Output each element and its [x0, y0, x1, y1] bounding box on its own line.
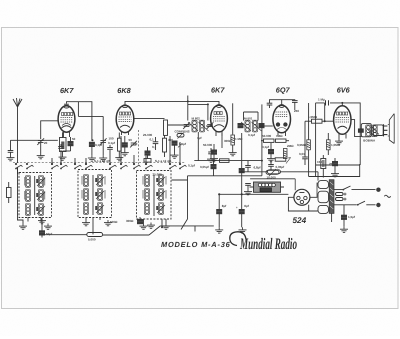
svg-text:100: 100 — [109, 137, 114, 141]
AVC line — [11, 140, 58, 150]
field coil assembly — [254, 182, 281, 192]
mains plug dot bottom — [376, 203, 380, 207]
resistor on bus A — [87, 233, 103, 242]
band switch row bank1 — [15, 163, 67, 169]
svg-text:50.000: 50.000 — [203, 143, 213, 147]
ground below osc coil — [140, 224, 148, 230]
svg-text:250: 250 — [294, 109, 299, 113]
osc bank right wires — [172, 176, 188, 230]
bank3 tuning arrows — [157, 177, 165, 213]
resistor above field coil — [242, 170, 318, 181]
coupling cap — [326, 100, 329, 105]
grid cap connector V1 — [64, 104, 69, 105]
V4 top cap wire — [270, 100, 282, 105]
wire IFT1 top — [188, 96, 208, 121]
transformer secondary taps — [332, 193, 346, 223]
switch gang dashed link — [138, 130, 140, 166]
svg-text:0,05μf: 0,05μf — [200, 165, 209, 169]
osc trimmer — [130, 141, 137, 148]
svg-text:50μf: 50μf — [46, 232, 52, 236]
caps above line — [207, 148, 215, 162]
junction dots — [92, 100, 326, 228]
svg-text:COMPENS: COMPENS — [175, 130, 190, 134]
svg-text:1μf: 1μf — [197, 136, 202, 140]
ground left small — [34, 217, 36, 220]
svg-text:1MΩ: 1MΩ — [276, 134, 283, 138]
bottom bus line A — [42, 234, 87, 236]
cathode resistor V2 — [118, 133, 122, 156]
vertical line x241 — [241, 133, 243, 209]
ground below — [99, 143, 107, 162]
diode load resistor B — [276, 139, 290, 142]
volume potentiometer — [266, 169, 279, 180]
ground padder — [88, 147, 96, 162]
IF transformer 1 M602 — [188, 117, 209, 133]
wire V2 plate to IFT — [134, 119, 191, 124]
V5 cathode cap — [331, 158, 339, 177]
svg-text:6K7: 6K7 — [60, 86, 74, 95]
ground V2 cathode — [115, 155, 123, 161]
osc cap 2 — [153, 137, 159, 150]
long vertical to B+ — [261, 104, 263, 175]
svg-text:2MΩ: 2MΩ — [287, 144, 294, 148]
box around output stage — [316, 165, 360, 177]
output transformer — [361, 124, 383, 143]
ground 8uf A — [215, 227, 223, 233]
wire filter top — [219, 193, 288, 195]
mains plug dot top — [376, 188, 380, 192]
AC tilde — [384, 195, 390, 197]
bank2 tuning arrows — [96, 177, 104, 213]
wire V1 grid cap to padder — [67, 102, 92, 141]
ground V5 — [335, 139, 343, 145]
ground below antenna coil — [19, 224, 27, 230]
ground below antenna coil 2 — [44, 224, 52, 230]
pilot lamp labels — [110, 219, 134, 224]
wires bank2 — [75, 158, 100, 234]
tuning cap line V1 bank — [17, 168, 19, 174]
antenna coil bank (dashed) — [19, 173, 52, 218]
line y160 — [194, 160, 262, 162]
svg-text:8μf: 8μf — [244, 204, 249, 208]
bypass cap V1 — [63, 137, 74, 151]
svg-text:0,1μf: 0,1μf — [95, 143, 102, 147]
ground below RF coil 2 — [104, 220, 112, 226]
cap AVC — [8, 151, 14, 153]
osc coupling cap — [144, 147, 151, 162]
ground V1 cathode — [59, 155, 67, 161]
svg-text:0,1: 0,1 — [150, 138, 155, 142]
resistor v below V4 — [283, 149, 287, 159]
wire V1 grid left — [41, 121, 58, 139]
svg-text:0,1μf: 0,1μf — [188, 164, 195, 168]
svg-text:50.000: 50.000 — [262, 134, 272, 138]
volume 1,5M resistor — [305, 115, 334, 123]
svg-text:S-1 a 12 4/5: S-1 a 12 4/5 — [155, 159, 172, 163]
wires bank3 — [144, 219, 167, 224]
transformer filament winding — [318, 205, 329, 213]
svg-text:MODELO M-A-36: MODELO M-A-36 — [161, 240, 231, 249]
filter electrolytic 8uf B — [236, 204, 249, 227]
V5 grid resistor 0,5M — [297, 140, 310, 150]
svg-text:6V6: 6V6 — [337, 86, 351, 95]
bottom return wire — [103, 219, 214, 235]
diode cap — [267, 143, 275, 162]
IF transformer 2 M501 — [241, 117, 262, 133]
V5 cathode resistor — [321, 155, 326, 178]
svg-text:0,01: 0,01 — [299, 152, 305, 156]
ground below osc coil 2 — [162, 224, 170, 230]
band switch row bank2 — [74, 163, 127, 169]
B+ vertical lines — [309, 103, 316, 177]
wire IFT2 top — [244, 112, 259, 121]
svg-text:0,1: 0,1 — [152, 145, 157, 149]
screen feed vertical 305 — [304, 121, 306, 156]
tube V2 6K8 — [116, 105, 134, 135]
wires bank1 — [18, 160, 62, 222]
small cap bottom — [138, 217, 143, 224]
wire IFT1 to V3 grid — [206, 125, 213, 127]
IFT1 side trimmers — [183, 122, 213, 129]
cap at riser 110 — [107, 145, 113, 149]
oscillator coil bank (dashed) — [137, 171, 172, 220]
cap on B+ node — [239, 169, 244, 173]
ground AVC — [7, 152, 15, 161]
svg-text:20: 20 — [44, 141, 48, 145]
trimmer cap left of V1 — [37, 138, 44, 145]
riser IFT1 — [197, 132, 199, 161]
rectifier tube 524 — [294, 189, 310, 205]
svg-text:500Ω: 500Ω — [110, 220, 118, 224]
svg-text:0,1μf: 0,1μf — [108, 141, 115, 145]
cap at riser 61 — [58, 144, 64, 148]
tube V4 6Q7 — [273, 105, 291, 136]
osc resistor tall — [164, 120, 168, 135]
wire V5 plate to OT — [351, 120, 361, 137]
wires field coil — [250, 186, 285, 188]
cathode resistor V1 — [60, 132, 67, 154]
rectifier wires — [288, 197, 318, 211]
RF coil bank (dashed) — [78, 170, 112, 218]
wire bank1 to V1 — [35, 171, 58, 180]
svg-text:+: + — [236, 206, 238, 210]
svg-text:6K8: 6K8 — [117, 86, 131, 95]
grid cap V4 — [267, 103, 273, 108]
svg-text:50: 50 — [129, 138, 133, 142]
ground trimmer V1 — [37, 143, 45, 159]
tone cap at OT — [358, 129, 363, 132]
IFT2 side caps — [238, 124, 264, 128]
grid cap V2 line — [102, 116, 104, 140]
osc resistor v2 — [163, 135, 167, 157]
svg-text:50: 50 — [134, 142, 138, 146]
bank1 tuning arrows — [37, 178, 45, 214]
mains switch bottom — [334, 201, 376, 206]
V4 right cap — [282, 100, 298, 110]
screen cap V2 — [121, 136, 129, 156]
svg-text:300: 300 — [168, 138, 173, 142]
svg-text:0,1μf: 0,1μf — [262, 145, 269, 149]
osc cap big — [171, 141, 183, 158]
V3 cathode cap — [210, 144, 218, 162]
V5 resistor 50000 — [327, 133, 341, 155]
riser V3 heater — [221, 133, 223, 148]
svg-text:6K7: 6K7 — [211, 86, 225, 95]
svg-text:1 Mμ: 1 Mμ — [318, 98, 325, 102]
svg-text:50: 50 — [72, 137, 76, 141]
svg-text:5.000: 5.000 — [88, 238, 96, 242]
V3 screen line — [232, 103, 234, 134]
svg-text:25μ: 25μ — [329, 162, 334, 166]
svg-text:1,5μf: 1,5μf — [348, 215, 355, 219]
ground below RF coil — [82, 220, 90, 226]
junction dot — [324, 120, 326, 122]
ground above 50uf — [38, 218, 46, 224]
power transformer core — [329, 180, 334, 214]
tube V1 6K7 — [58, 105, 75, 137]
svg-text:BOBINA: BOBINA — [363, 138, 376, 142]
wave switch dashed bus — [13, 162, 185, 164]
coupling line top — [316, 103, 361, 165]
wire V4 plate top — [282, 99, 295, 101]
svg-text:150: 150 — [317, 160, 322, 164]
diode load resistor A — [261, 139, 274, 142]
cap on 305 — [302, 157, 308, 159]
mains switch top — [334, 186, 376, 191]
resistor 1,0 horizontal — [275, 158, 290, 164]
resistor 1M on line — [220, 159, 230, 163]
tube V3 6K7 — [211, 105, 228, 136]
svg-text:S-1 a 12 4/5: S-1 a 12 4/5 — [94, 159, 111, 163]
ground right — [232, 150, 234, 152]
line filter cap — [340, 205, 355, 233]
padder cap V1 — [89, 142, 94, 146]
transformer HV winding — [318, 191, 329, 203]
svg-text:Mundial Radio: Mundial Radio — [239, 236, 297, 253]
svg-text:300Ω: 300Ω — [126, 219, 134, 223]
svg-text:0,1μf: 0,1μf — [248, 133, 255, 137]
cap 50uf bottom left — [40, 219, 53, 238]
extra tiny labels — [44, 109, 334, 166]
junction to cap — [324, 103, 327, 121]
line y175.8 — [188, 175, 262, 177]
antenna — [13, 98, 23, 224]
wire IFT2 to V4 — [259, 125, 273, 127]
transformer primary winding — [318, 181, 329, 189]
speaker — [384, 114, 395, 144]
cap 6,8 — [245, 161, 260, 172]
svg-text:524: 524 — [293, 216, 307, 225]
cap 0,1 on line — [200, 161, 216, 176]
ground V3 screen — [229, 150, 237, 156]
logo Mundial Radio — [230, 232, 297, 253]
ground bottom mid — [147, 223, 155, 229]
ground left of field coil — [244, 184, 252, 195]
phono terminal box left edge — [7, 182, 12, 203]
top bus V2 to V3 — [125, 101, 219, 106]
wire risers switch row — [52, 136, 180, 165]
svg-text:6,8μf: 6,8μf — [254, 166, 261, 170]
filter electrolytic 8uf A — [217, 194, 227, 227]
ground 8uf B — [239, 227, 247, 233]
wire RF link y116 — [78, 102, 103, 117]
svg-text:0,05μf: 0,05μf — [276, 165, 285, 169]
resistor 1M V3 — [231, 135, 243, 150]
cap 0,05 — [268, 160, 284, 170]
svg-text:1,5MΩ: 1,5MΩ — [308, 115, 318, 119]
tube V5 6V6 — [334, 106, 351, 139]
svg-text:6Q7: 6Q7 — [276, 86, 291, 95]
svg-text:25.000: 25.000 — [143, 133, 153, 137]
trimmer at V2 grid — [100, 138, 107, 145]
compensator trimmer — [175, 130, 190, 139]
svg-text:8μf: 8μf — [222, 204, 227, 208]
svg-text:1,0MΩ: 1,0MΩ — [331, 143, 341, 147]
svg-text:300Ω: 300Ω — [224, 139, 232, 143]
svg-text:0,1μf: 0,1μf — [179, 142, 186, 146]
band switch row bank3 — [133, 163, 186, 169]
